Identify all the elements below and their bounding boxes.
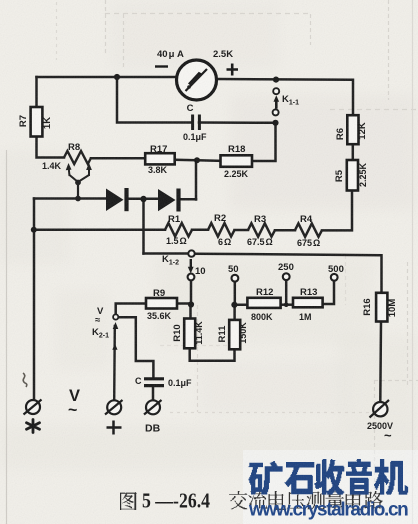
switch contact 250 xyxy=(283,273,290,280)
wire: R9 left to V contact corner xyxy=(116,304,146,315)
wire: contact 50 down to node xyxy=(234,282,237,303)
watermark background tint xyxy=(243,450,418,524)
wire: R17 right to node to R18 left xyxy=(175,160,221,161)
wire: R10 bottom U link to R11 bottom xyxy=(190,348,235,360)
wire: top rail meter to right corner, down to R6 xyxy=(217,79,353,115)
switch contact 50 xyxy=(232,275,239,282)
wire: R8 right to R17 left xyxy=(91,157,145,160)
watermark crystalradio xyxy=(248,459,408,521)
resistor R6 12K xyxy=(347,115,358,144)
junction: left rail / R1 row node xyxy=(31,227,37,233)
junction: contact-250/R12/R13 node xyxy=(284,302,289,307)
potentiometer R8 1.4K zigzag xyxy=(64,151,91,164)
resistor R13 1M xyxy=(293,298,323,308)
wire: node down to R10 top xyxy=(189,305,192,319)
junction: R17/R18/diode cathode node xyxy=(194,157,200,163)
wire: K2-1 wiper shaft down to plus terminal xyxy=(113,326,116,400)
scan mark xyxy=(23,373,27,387)
wire: R9 right to node xyxy=(177,302,191,305)
wire: left rail down to star terminal xyxy=(33,199,36,401)
junction: meter minus / C branch node xyxy=(114,74,120,80)
faint scan fold line left edge xyxy=(6,150,8,524)
wire: R2-R3 link xyxy=(235,229,249,232)
star symbol xyxy=(27,420,40,433)
junction: R8 wiper / diode row node xyxy=(75,196,81,202)
wire: meter cap branch: node to C left plate xyxy=(117,77,191,123)
wire: contact 250 down xyxy=(285,280,288,305)
capacitor C 0.1uF (meter) xyxy=(191,115,194,131)
junction: C / R18 / K1-1 node xyxy=(272,120,278,126)
wire: R13 right to 500 contact xyxy=(323,281,334,304)
resistor R12 800K xyxy=(247,298,280,308)
wire: R12 right to 250 node to R13 left xyxy=(281,303,293,306)
wire: K1-1 node down to R18 right xyxy=(252,123,276,161)
wire: diode mid node down to K1-2 row xyxy=(142,199,145,254)
resistor R11 150K xyxy=(229,320,240,349)
wire: R11 top to node xyxy=(233,303,236,320)
resistor R5 2.25K xyxy=(347,160,358,191)
caption: AC voltage measurement circuit xyxy=(229,491,382,510)
resistor R2 6 ohm zigzag xyxy=(208,223,235,236)
R8 wiper arrows xyxy=(69,166,90,176)
wire: V contact to cap column xyxy=(118,317,153,376)
wire: R16 bottom to 2500V terminal xyxy=(379,322,382,402)
switch K1-2 moving contact xyxy=(188,250,194,256)
resistor R17 3.8K xyxy=(145,153,175,164)
junction: R8 wiper node xyxy=(75,180,81,186)
terminal plus xyxy=(105,400,123,415)
wire: R7 column xyxy=(35,77,38,107)
caption: 图 5 - 26.4 xyxy=(120,489,210,513)
wire: cap bottom to DB terminal xyxy=(152,387,155,400)
wire: R3-R4 link xyxy=(275,229,295,232)
switch K1-1 xyxy=(273,88,279,94)
resistor R7 1K xyxy=(31,107,43,137)
main schematic strokes xyxy=(34,77,382,401)
diode D2 xyxy=(158,189,176,211)
faint dashed artifacts top xyxy=(105,0,107,55)
wire: R7 bottom to R8 left xyxy=(37,137,65,158)
wire: top rail left from R7 top to meter xyxy=(37,76,177,79)
switch K2-1 contact xyxy=(113,314,118,319)
meter minus sign xyxy=(155,65,168,67)
wire: R6 bottom to R5 top xyxy=(352,144,355,160)
meter M xyxy=(177,60,217,100)
resistor R4 675 ohm zigzag xyxy=(295,223,322,236)
terminal 2500V xyxy=(370,400,390,418)
resistor R1 1.5 ohm zigzag xyxy=(165,223,192,236)
resistor R10 11.4K xyxy=(184,319,195,349)
resistor R9 35.6K xyxy=(146,298,177,309)
resistor R16 10M xyxy=(376,293,387,322)
resistor R18 2.25K xyxy=(221,155,253,167)
wire: R1 row left xyxy=(34,229,166,232)
wire: C right plate to K1-1 bottom node xyxy=(199,121,276,124)
wire: R4 right to R5 bottom column xyxy=(322,191,352,231)
meter plus sign xyxy=(227,64,239,76)
junction: top rail / K1-1 node xyxy=(273,77,279,83)
wire: R1-R2 link xyxy=(192,229,208,232)
resistor R3 67.5 ohm zigzag xyxy=(248,223,275,236)
wire: K1-2 row right of circle to R16 top xyxy=(195,254,382,293)
wire: K1-2 row left of circle xyxy=(144,252,189,255)
capacitor C 0.1uF (bottom) xyxy=(144,377,164,380)
switch contact 500 xyxy=(331,274,338,281)
K2-1 wiper arrow up xyxy=(113,322,119,329)
junction: contact-10/R9/R10 node xyxy=(188,301,194,307)
wire: node to R12 left xyxy=(234,304,247,307)
wire: node above diode2 down xyxy=(195,160,198,199)
terminal DB xyxy=(144,400,162,415)
junction: contact-50/R11/R12 node xyxy=(231,302,237,308)
plus symbol xyxy=(107,421,122,435)
wire: diode row xyxy=(34,197,106,200)
switch contact 10 xyxy=(188,274,195,281)
terminal star xyxy=(24,400,42,415)
junction: diode midpoint node xyxy=(140,196,146,202)
diode D1 xyxy=(106,189,124,212)
wire: contact 10 down to node xyxy=(190,280,193,304)
